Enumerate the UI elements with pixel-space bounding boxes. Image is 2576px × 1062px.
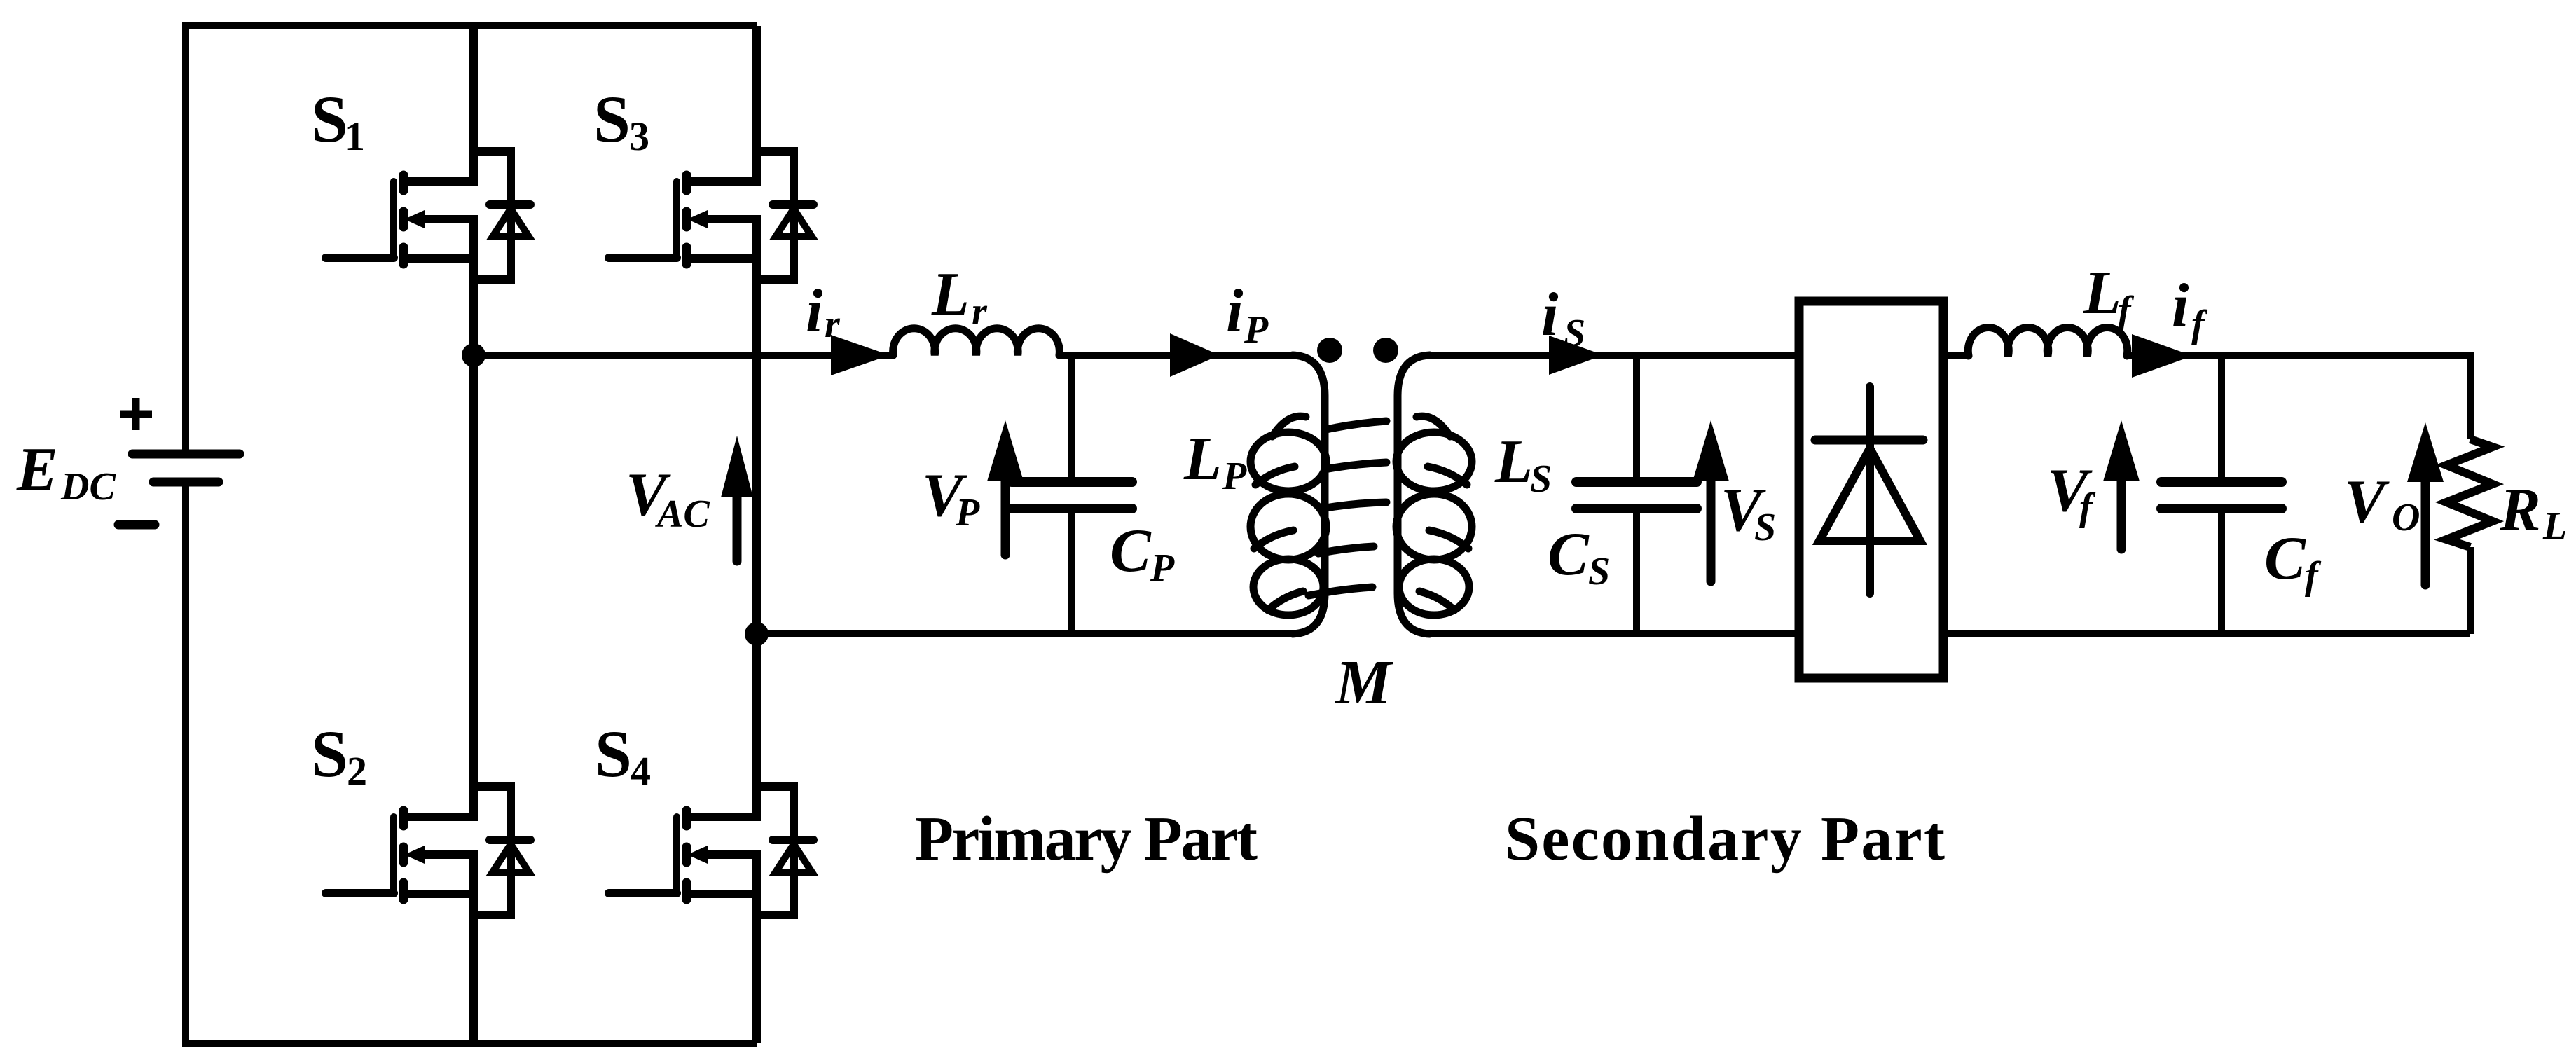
- current arrow i_f: [2132, 334, 2193, 378]
- svg-text:S: S: [311, 82, 348, 156]
- transformer primary winding L_P: [1251, 355, 1386, 634]
- node B (output of right leg): [745, 622, 769, 646]
- svg-text:P: P: [955, 491, 980, 535]
- svg-text:L: L: [2542, 504, 2567, 548]
- transformer polarity dot (primary): [1317, 338, 1342, 363]
- svg-text:AC: AC: [655, 492, 710, 536]
- rectifier block (diode bridge box): [1799, 301, 1943, 678]
- svg-text:i: i: [806, 277, 823, 345]
- svg-text:C: C: [1548, 520, 1590, 588]
- label V_AC: [626, 461, 710, 536]
- svg-text:i: i: [2172, 272, 2189, 340]
- wire: capacitor C_f top lead: [2218, 356, 2225, 483]
- svg-text:DC: DC: [60, 465, 116, 509]
- voltage arrow V_f (points up): [2103, 420, 2140, 549]
- wire: capacitor C_P top lead: [1068, 355, 1075, 483]
- svg-text:S: S: [595, 717, 632, 791]
- svg-text:P: P: [1244, 308, 1269, 352]
- capacitor C_f: [2161, 482, 2282, 509]
- svg-text:i: i: [1226, 277, 1244, 345]
- capacitor C_P: [1012, 482, 1132, 509]
- svg-text:L: L: [1494, 428, 1533, 496]
- label V_f: [2047, 457, 2096, 529]
- svg-text:i: i: [1541, 281, 1559, 349]
- transformer secondary winding L_S: [1396, 355, 1472, 634]
- wire: S3 source down to node B (crosses AC output wire): [752, 280, 761, 634]
- svg-text:S: S: [1754, 506, 1776, 549]
- label V_S: [1721, 476, 1776, 549]
- wire: S3 drain leg from top rail: [752, 26, 761, 151]
- label L_S: [1494, 428, 1552, 501]
- voltage arrow V_P (points up): [987, 420, 1024, 555]
- label V_o: [2344, 468, 2420, 539]
- transformer polarity dot (secondary): [1373, 338, 1398, 363]
- wire: left battery rail (lower) and bottom DC rail: [186, 482, 757, 1043]
- wire: capacitor C_S top lead: [1633, 355, 1640, 483]
- inductor L_r: [893, 329, 1060, 355]
- capacitor C_S: [1576, 482, 1697, 509]
- battery plus sign: [120, 398, 152, 430]
- wire: rectifier output bottom bus: [1943, 630, 2470, 637]
- inductor L_f: [1968, 328, 2128, 356]
- wire: primary bottom bus from node B to transformer: [757, 630, 1291, 637]
- current arrow i_r: [831, 335, 890, 375]
- svg-text:C: C: [1110, 517, 1152, 585]
- label L_r: [931, 261, 988, 333]
- wire: capacitor C_f bottom lead: [2218, 509, 2225, 634]
- svg-text:r: r: [825, 303, 841, 346]
- battery E_DC: [132, 454, 240, 482]
- svg-text:1: 1: [345, 113, 365, 159]
- wire: S4 source to bottom rail: [752, 915, 761, 1043]
- battery minus sign: [118, 520, 155, 530]
- svg-text:L: L: [931, 261, 970, 329]
- label C_f: [2264, 525, 2322, 598]
- wire: transformer secondary top to rectifier: [1431, 352, 1799, 359]
- svg-text:S: S: [1530, 457, 1552, 501]
- transistor S2 (MOSFET with body diode): [326, 787, 530, 915]
- svg-text:P: P: [1150, 546, 1175, 590]
- svg-text:V: V: [2344, 468, 2390, 536]
- label S3: [593, 82, 649, 159]
- label V_P: [922, 462, 980, 535]
- svg-text:M: M: [1334, 648, 1393, 717]
- transistor S4 (MOSFET with body diode): [609, 787, 813, 915]
- current arrow i_P: [1170, 333, 1220, 377]
- label C_P: [1110, 517, 1175, 590]
- wire: node A to L_r (AC output wire, crosses right leg): [474, 352, 893, 359]
- transistor S3 (MOSFET with body diode): [609, 151, 813, 280]
- svg-text:O: O: [2392, 496, 2420, 539]
- wire: S4 drain leg from node B: [752, 634, 761, 787]
- wire: top DC rail and left battery rail (upper): [186, 26, 757, 454]
- svg-text:C: C: [2264, 525, 2306, 593]
- svg-text:E: E: [16, 436, 58, 504]
- voltage arrow V_o (points up): [2407, 422, 2444, 585]
- label L_P: [1183, 425, 1247, 498]
- label i_r: [806, 277, 841, 346]
- wire: S1 source down to node A: [469, 280, 478, 355]
- current arrow i_S: [1549, 336, 1604, 375]
- svg-text:R: R: [2499, 476, 2541, 544]
- voltage arrow V_AC (points up): [721, 436, 753, 561]
- wire: capacitor C_S bottom lead: [1633, 509, 1640, 634]
- wire: resistor R_L to bottom bus: [2467, 547, 2474, 634]
- svg-text:2: 2: [347, 748, 367, 794]
- svg-text:L: L: [2083, 259, 2121, 327]
- svg-text:S: S: [1588, 550, 1610, 593]
- wire: S1 drain leg from top rail: [469, 26, 478, 151]
- label i_S: [1541, 281, 1585, 355]
- voltage arrow V_S (points up): [1693, 420, 1729, 581]
- node A (output of left leg): [462, 343, 485, 367]
- wire: L_r to transformer primary top: [1059, 352, 1291, 359]
- svg-text:S: S: [311, 717, 348, 791]
- wire: S2 source to bottom rail: [469, 915, 478, 1043]
- svg-text:P: P: [1222, 455, 1247, 498]
- svg-text:S: S: [593, 82, 631, 156]
- wire: rectifier output top to L_f: [1943, 352, 1969, 359]
- label R_L: [2499, 476, 2567, 548]
- label E_DC: [16, 436, 116, 509]
- wire: right edge down to resistor R_L: [2467, 352, 2474, 439]
- wire: capacitor C_P bottom lead: [1068, 509, 1075, 634]
- wire: L_f to load section: [2127, 352, 2470, 359]
- rectifier diode symbol: [1815, 387, 1923, 593]
- svg-text:S: S: [1564, 312, 1585, 355]
- svg-text:4: 4: [631, 748, 651, 794]
- svg-text:Primary Part: Primary Part: [915, 804, 1258, 874]
- label L_f: [2083, 259, 2135, 332]
- transistor S1 (MOSFET with body diode): [326, 151, 530, 280]
- svg-text:Secondary Part: Secondary Part: [1505, 804, 1945, 874]
- label C_S: [1548, 520, 1610, 593]
- label S1: [311, 82, 365, 159]
- svg-text:3: 3: [629, 113, 649, 159]
- svg-text:L: L: [1183, 425, 1222, 493]
- wire: S2 drain leg from node A: [469, 355, 478, 787]
- wire: transformer secondary bottom bus to rectifier: [1431, 630, 1799, 637]
- resistor R_L (zigzag): [2446, 439, 2493, 547]
- svg-text:r: r: [972, 290, 988, 333]
- label i_f: [2172, 272, 2208, 346]
- label i_P: [1226, 277, 1269, 352]
- label S2: [311, 717, 367, 794]
- label S4: [595, 717, 651, 794]
